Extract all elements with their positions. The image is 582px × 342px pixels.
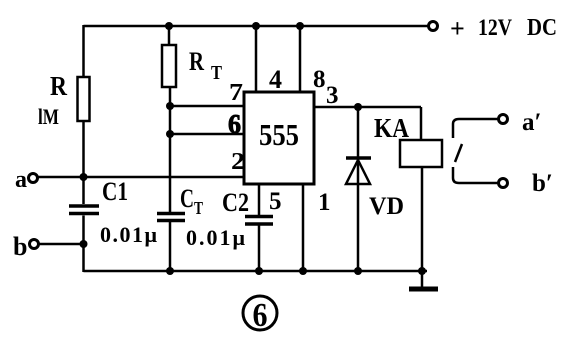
- svg-text:C1: C1: [102, 177, 128, 206]
- svg-text:6: 6: [228, 109, 241, 139]
- svg-text:a: a: [15, 167, 27, 193]
- svg-text:DC: DC: [527, 15, 557, 41]
- svg-text:lM: lM: [38, 104, 59, 129]
- svg-text:b′: b′: [532, 170, 553, 197]
- svg-text:KA: KA: [374, 113, 409, 143]
- svg-text:0.01μ: 0.01μ: [186, 225, 246, 250]
- svg-text:2: 2: [231, 149, 245, 175]
- svg-text:C2: C2: [222, 188, 249, 217]
- svg-text:C: C: [180, 184, 194, 213]
- svg-text:0.01μ: 0.01μ: [100, 222, 158, 247]
- svg-text:8: 8: [313, 66, 326, 93]
- svg-text:12V: 12V: [478, 15, 512, 40]
- svg-text:T: T: [211, 62, 223, 84]
- svg-text:VD: VD: [369, 193, 404, 220]
- svg-text:R: R: [50, 71, 67, 101]
- svg-text:b: b: [13, 232, 27, 261]
- svg-text:T: T: [194, 198, 203, 218]
- svg-text:1: 1: [318, 189, 331, 216]
- svg-text:a′: a′: [522, 109, 542, 136]
- svg-text:3: 3: [326, 82, 339, 109]
- svg-text:+: +: [450, 14, 465, 43]
- svg-text:5: 5: [269, 188, 282, 215]
- svg-text:R: R: [189, 47, 204, 76]
- svg-text:6: 6: [253, 297, 268, 334]
- svg-text:555: 555: [259, 117, 299, 152]
- svg-text:4: 4: [269, 65, 282, 94]
- svg-text:7: 7: [229, 80, 243, 106]
